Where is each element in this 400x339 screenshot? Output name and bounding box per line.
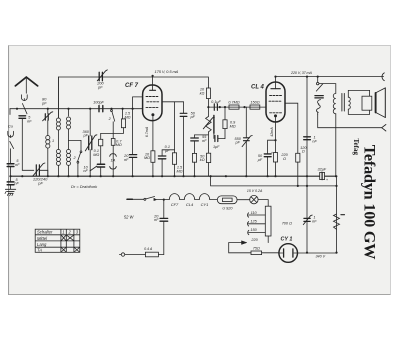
- svg-text:MΩ: MΩ: [93, 153, 99, 157]
- svg-text:Tefadyn 100 GW: Tefadyn 100 GW: [360, 145, 378, 259]
- svg-text:15 V 0.2A: 15 V 0.2A: [247, 189, 263, 193]
- svg-text:6.7mA: 6.7mA: [145, 126, 149, 137]
- svg-text:150: 150: [250, 228, 257, 232]
- svg-text:Cu: Cu: [8, 124, 14, 129]
- svg-text:nF: nF: [27, 119, 32, 123]
- svg-text:MΩ: MΩ: [230, 124, 236, 128]
- svg-text:pF: pF: [82, 134, 88, 138]
- svg-text:kΩ: kΩ: [200, 91, 205, 95]
- svg-text:nF: nF: [14, 182, 19, 186]
- svg-text:Dr = Drahtfunk: Dr = Drahtfunk: [71, 184, 98, 189]
- svg-text:0.7MΩ: 0.7MΩ: [228, 101, 239, 105]
- svg-text:pF: pF: [234, 141, 240, 145]
- svg-text:nF: nF: [312, 139, 317, 143]
- svg-text:CY1: CY1: [201, 202, 209, 207]
- svg-text:32μF: 32μF: [317, 168, 326, 172]
- svg-text:1: 1: [52, 139, 54, 143]
- svg-text:150Ω: 150Ω: [250, 101, 259, 105]
- svg-text:pF: pF: [97, 86, 103, 90]
- svg-text:nF: nF: [83, 169, 88, 173]
- svg-text:Lang: Lang: [37, 242, 47, 247]
- svg-text:nF: nF: [154, 218, 159, 222]
- svg-text:MΩ: MΩ: [176, 169, 182, 173]
- svg-text:100pF: 100pF: [93, 101, 104, 105]
- svg-text:nF: nF: [312, 220, 317, 224]
- svg-text:175 V, 0.5 mA: 175 V, 0.5 mA: [155, 69, 179, 74]
- svg-text:CL 4: CL 4: [251, 84, 265, 90]
- svg-text:MΩ: MΩ: [144, 156, 150, 160]
- svg-text:μF: μF: [164, 149, 170, 153]
- svg-text:CF7: CF7: [171, 202, 179, 207]
- svg-text:340 V: 340 V: [316, 255, 326, 259]
- svg-text:pF: pF: [189, 115, 195, 119]
- svg-text:TA: TA: [37, 248, 42, 253]
- svg-text:pF: pF: [41, 101, 47, 105]
- svg-text:42mA: 42mA: [270, 127, 274, 137]
- svg-text:1μF: 1μF: [213, 145, 220, 149]
- svg-text:Schalter: Schalter: [37, 230, 53, 235]
- svg-text:Tefag: Tefag: [352, 139, 360, 156]
- svg-text:nF: nF: [202, 139, 207, 143]
- svg-text:75Ω: 75Ω: [253, 246, 260, 250]
- svg-text:110: 110: [251, 211, 258, 215]
- svg-text:Ω: Ω: [302, 150, 305, 154]
- svg-text:MΩ: MΩ: [124, 115, 130, 119]
- svg-text:1: 1: [62, 230, 64, 235]
- svg-text:0.1μF: 0.1μF: [211, 100, 221, 104]
- svg-text:CL4: CL4: [186, 202, 194, 207]
- svg-text:U 920: U 920: [222, 207, 233, 211]
- svg-text:1A: 1A: [111, 158, 116, 163]
- svg-text:nF: nF: [15, 163, 20, 167]
- svg-text:Mittel: Mittel: [37, 236, 48, 241]
- svg-text:52 W: 52 W: [124, 215, 135, 220]
- svg-text:kΩ: kΩ: [200, 158, 205, 162]
- svg-text:nF: nF: [124, 158, 129, 162]
- svg-text:125: 125: [250, 220, 257, 224]
- svg-text:CY 1: CY 1: [281, 237, 293, 243]
- svg-text:μF: μF: [257, 158, 263, 162]
- svg-text:CF 7: CF 7: [125, 83, 139, 89]
- svg-text:Ω: Ω: [283, 157, 286, 161]
- svg-text:220 V, 37 mA: 220 V, 37 mA: [290, 71, 313, 75]
- svg-text:MΩ: MΩ: [116, 143, 122, 147]
- svg-text:pF: pF: [37, 181, 43, 186]
- svg-text:0.4 A: 0.4 A: [144, 247, 153, 251]
- svg-text:700 Ω: 700 Ω: [282, 222, 292, 226]
- svg-text:220: 220: [250, 238, 258, 242]
